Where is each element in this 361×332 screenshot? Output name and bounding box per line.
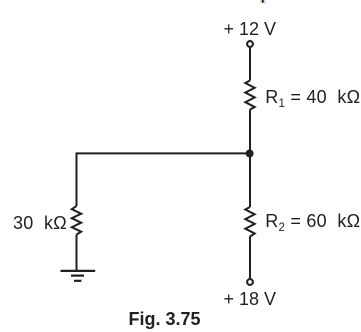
stray printing speck top edge (260, 0, 266, 3)
svg-text:+ 18 V: + 18 V (224, 289, 277, 309)
svg-text:30 kΩ: 30 kΩ (13, 213, 67, 233)
wire from +12V terminal to R1 (249, 48, 251, 81)
node +18V terminal (247, 279, 253, 285)
node junction dot (246, 150, 254, 158)
resistor R1 (245, 81, 254, 110)
resistor 30 kOhm (72, 206, 81, 235)
ground (61, 271, 96, 281)
node +12V terminal (247, 41, 253, 47)
wire horizontal from junction to left branch (77, 152, 251, 154)
svg-text:Fig. 3.75: Fig. 3.75 (129, 309, 201, 329)
resistor R2 (245, 207, 254, 237)
svg-text:R1 = 40 kΩ: R1 = 40 kΩ (265, 87, 360, 110)
wire from R1 through junction to R2 (249, 110, 251, 208)
wire left branch vertical down to 30k resistor (76, 152, 78, 206)
wire from R2 to +18V terminal (249, 237, 251, 279)
wire from 30k resistor to ground (76, 235, 78, 271)
svg-text:+ 12 V: + 12 V (224, 19, 277, 39)
svg-text:R2 = 60 kΩ: R2 = 60 kΩ (265, 211, 360, 234)
